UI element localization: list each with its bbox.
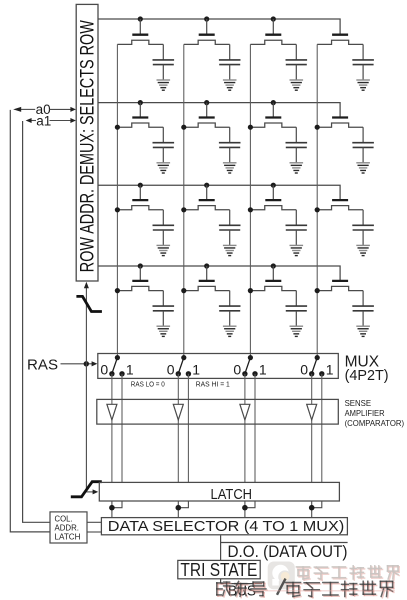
svg-text:0: 0 <box>167 362 175 378</box>
svg-text:DATA SELECTOR (4 TO 1 MUX): DATA SELECTOR (4 TO 1 MUX) <box>108 518 345 535</box>
svg-text:LATCH: LATCH <box>211 487 253 503</box>
svg-text:TRI STATE: TRI STATE <box>180 560 257 580</box>
svg-text:0: 0 <box>100 362 108 378</box>
svg-text:LATCH: LATCH <box>55 531 81 541</box>
svg-text:1: 1 <box>259 362 267 378</box>
svg-text:1: 1 <box>326 362 334 378</box>
svg-text:1: 1 <box>126 362 134 378</box>
svg-text:SENSE: SENSE <box>345 399 372 408</box>
svg-text:0: 0 <box>233 362 241 378</box>
svg-text:D.O. (DATA OUT): D.O. (DATA OUT) <box>228 543 348 561</box>
svg-text:ROW ADDR. DEMUX: SELECTS ROW: ROW ADDR. DEMUX: SELECTS ROW <box>76 20 98 272</box>
svg-text:RAS HI = 1: RAS HI = 1 <box>196 379 230 388</box>
svg-text:(4P2T): (4P2T) <box>345 367 389 384</box>
svg-text:1: 1 <box>192 362 200 378</box>
svg-text:RAS LO = 0: RAS LO = 0 <box>131 379 165 388</box>
svg-text:(COMPARATOR): (COMPARATOR) <box>345 419 405 428</box>
svg-text:AMPLIFIER: AMPLIFIER <box>345 409 385 418</box>
svg-text:a1: a1 <box>36 113 51 128</box>
svg-text:0: 0 <box>300 362 308 378</box>
svg-text:RAS: RAS <box>27 357 58 374</box>
